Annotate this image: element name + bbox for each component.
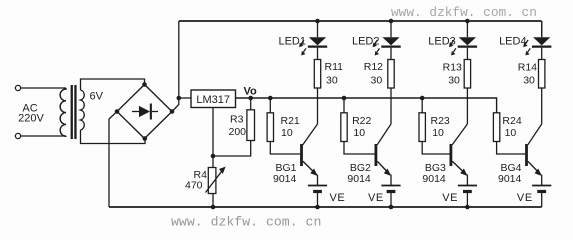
svg-text:6V: 6V: [90, 91, 104, 103]
wire: [212, 108, 214, 157]
transformer T primary winding: [60, 88, 66, 136]
wire: [390, 21, 392, 37]
bridge rectifier D1 diamond: [117, 85, 172, 139]
svg-text:10: 10: [281, 127, 293, 139]
label BG4 9014: [498, 162, 522, 185]
wire: [466, 175, 468, 185]
wire: [250, 98, 252, 110]
svg-text:VE: VE: [442, 192, 458, 204]
resistor R24: [493, 113, 499, 142]
wire: [317, 48, 319, 60]
regulator U1 LM317: [191, 90, 236, 108]
svg-text:10: 10: [353, 127, 365, 139]
battery VE4: [532, 186, 551, 192]
terminal AC top: [15, 85, 20, 90]
wire: [390, 193, 392, 207]
watermark bottom: [171, 215, 321, 230]
wire: [528, 124, 542, 145]
svg-text:R11: R11: [325, 61, 344, 73]
transformer core: [71, 85, 77, 139]
wire ground rail: [109, 206, 542, 208]
wire: [541, 21, 543, 37]
label R22 10: [352, 115, 371, 139]
node: [465, 205, 470, 210]
svg-text:R14: R14: [518, 62, 537, 74]
transistor BG3: [450, 144, 468, 176]
node: [465, 19, 470, 24]
resistor R4 (adjustable): [206, 167, 226, 194]
svg-text:LM317: LM317: [196, 94, 230, 106]
wire: [317, 193, 319, 207]
resistor R11: [314, 60, 320, 89]
node: [268, 96, 273, 101]
node: [211, 154, 216, 159]
svg-text:10: 10: [505, 127, 517, 139]
svg-text:LED2: LED2: [352, 36, 380, 48]
wire: [541, 88, 543, 124]
transformer T secondary winding: [81, 90, 85, 130]
wire: [212, 156, 214, 168]
node bridge top: [142, 82, 147, 87]
resistor R23: [419, 113, 425, 142]
watermark top: [391, 5, 537, 20]
label Vo: [244, 86, 258, 98]
node: [315, 19, 320, 24]
svg-text:200: 200: [229, 126, 247, 138]
svg-text:R23: R23: [431, 115, 450, 127]
wire: [303, 124, 318, 145]
wire: [213, 141, 251, 157]
label BG2 9014: [347, 162, 371, 185]
node: [420, 96, 425, 101]
svg-text:9014: 9014: [273, 173, 297, 185]
wire: [21, 135, 66, 137]
svg-text:9014: 9014: [422, 173, 446, 185]
wire: [212, 194, 214, 208]
wire: [21, 87, 66, 89]
label BG3 9014: [422, 162, 446, 185]
wire: [109, 112, 117, 208]
node: [389, 205, 394, 210]
node: [342, 96, 347, 101]
label LED2: [352, 36, 380, 48]
label VE: [517, 192, 533, 204]
resistor R13: [464, 60, 470, 89]
wire: [178, 21, 180, 98]
svg-text:30: 30: [523, 74, 535, 86]
wire: [81, 130, 146, 144]
svg-text:Vo: Vo: [244, 86, 258, 98]
wire: [377, 124, 391, 145]
svg-text:220V: 220V: [18, 113, 44, 125]
label R4 470: [185, 169, 207, 191]
svg-text:10: 10: [432, 127, 444, 139]
node: [315, 205, 320, 210]
node: [389, 19, 394, 24]
label R13 30: [443, 62, 462, 87]
svg-text:VE: VE: [368, 192, 384, 204]
label LED1: [278, 36, 306, 48]
svg-text:VE: VE: [517, 192, 533, 204]
svg-text:R24: R24: [502, 115, 521, 127]
svg-text:9014: 9014: [347, 173, 371, 185]
svg-text:30: 30: [326, 74, 338, 86]
resistor R14: [539, 60, 545, 89]
wire: [390, 48, 392, 60]
wire: [344, 142, 375, 155]
wire: [421, 98, 423, 113]
svg-text:www. dzkfw. com. cn: www. dzkfw. com. cn: [171, 215, 321, 230]
label LED4: [499, 36, 527, 48]
wire: [541, 21, 543, 37]
wire: [390, 175, 392, 185]
wire: [541, 175, 543, 185]
node: [248, 96, 253, 101]
label R12 30: [364, 61, 383, 86]
node bridge left: [115, 109, 120, 114]
svg-text:www. dzkfw. com. cn: www. dzkfw. com. cn: [391, 5, 537, 20]
svg-text:VE: VE: [330, 192, 346, 204]
svg-text:R21: R21: [281, 115, 300, 127]
label 6V: [90, 91, 104, 103]
bridge diode symbol: [132, 104, 158, 120]
wire: [343, 98, 345, 113]
wire: [452, 124, 467, 145]
wire: [541, 48, 543, 60]
terminal AC bottom: [15, 133, 20, 138]
svg-text:R22: R22: [352, 115, 371, 127]
svg-text:LED3: LED3: [428, 36, 456, 48]
node: [177, 96, 182, 101]
resistor R21: [267, 113, 273, 142]
wire: [390, 88, 392, 124]
LED LED1: [299, 37, 327, 55]
wire: [269, 98, 271, 113]
svg-text:R13: R13: [443, 62, 462, 74]
svg-text:LED1: LED1: [278, 36, 306, 48]
node bridge right: [170, 109, 175, 114]
wire: [270, 142, 300, 155]
label R21 10: [281, 115, 300, 139]
wire: [172, 98, 179, 112]
svg-text:30: 30: [448, 74, 460, 86]
svg-text:30: 30: [371, 74, 383, 86]
battery VE2: [381, 186, 400, 192]
svg-text:R12: R12: [364, 61, 383, 73]
wire: [317, 88, 319, 124]
label R14 30: [518, 62, 537, 87]
wire: [466, 21, 468, 37]
LED LED4: [523, 37, 551, 55]
wire: [179, 97, 191, 99]
label VE: [442, 192, 458, 204]
wire: [81, 79, 145, 90]
LED LED2: [373, 37, 401, 55]
wire: [466, 88, 468, 124]
label R11 30: [325, 61, 344, 86]
transistor BG4: [525, 144, 542, 176]
label LED3: [428, 36, 456, 48]
resistor R12: [388, 60, 394, 89]
wire top rail: [179, 20, 542, 22]
transistor BG2: [375, 144, 392, 176]
label R23 10: [431, 115, 450, 139]
LED LED3: [449, 37, 477, 55]
svg-text:LED4: LED4: [499, 36, 527, 48]
wire: [466, 193, 468, 207]
svg-text:R3: R3: [230, 114, 244, 126]
label R3 200: [229, 114, 247, 138]
wire: [497, 142, 526, 155]
wire: [541, 193, 543, 207]
svg-text:470: 470: [185, 179, 203, 191]
svg-text:9014: 9014: [498, 173, 522, 185]
resistor R22: [341, 113, 347, 142]
wire: [422, 142, 449, 155]
wire Vo rail: [236, 98, 497, 113]
wire: [466, 48, 468, 60]
resistor R3: [247, 110, 255, 141]
label AC 220V: [18, 103, 44, 125]
wire: [317, 175, 319, 185]
label VE: [330, 192, 346, 204]
battery VE3: [458, 186, 477, 192]
node: [211, 205, 216, 210]
transistor BG1: [300, 144, 318, 176]
battery VE1: [308, 186, 327, 192]
node bridge bottom: [143, 136, 148, 141]
label VE: [368, 192, 384, 204]
wire: [317, 21, 319, 37]
label R24 10: [502, 115, 521, 139]
label BG1 9014: [273, 162, 297, 185]
